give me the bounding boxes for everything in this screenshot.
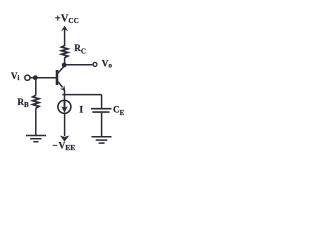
node base junction dot: [33, 75, 38, 80]
svg-text:−VEE: −VEE: [52, 142, 75, 152]
ground right: [92, 137, 112, 143]
wire collector node to Vo terminal: [64, 64, 92, 66]
transistor Q1: [57, 63, 65, 91]
node collector junction dot: [62, 63, 67, 68]
wire down to capacitor CE: [101, 95, 103, 108]
wire current source to -VEE arrow: [64, 113, 66, 136]
wire emitter to current source: [64, 91, 66, 101]
current source I: [58, 100, 71, 113]
ground left: [26, 136, 46, 142]
terminal Vo circle: [93, 62, 97, 66]
wire RB to ground: [35, 108, 37, 135]
resistor RB: [33, 95, 39, 108]
wire RC to collector node: [64, 57, 66, 65]
wire emitter node to CE: [62, 94, 101, 96]
resistor RC: [62, 46, 68, 58]
terminal Vi circle: [25, 75, 30, 80]
wire base node down to RB: [35, 78, 37, 96]
arrow to -VEE: [60, 136, 69, 142]
VCC supply arrow: [61, 26, 68, 46]
wire Vi to base: [31, 77, 57, 79]
wire CE to ground: [101, 113, 103, 136]
svg-text:I: I: [79, 105, 83, 116]
capacitor CE: [91, 109, 112, 112]
